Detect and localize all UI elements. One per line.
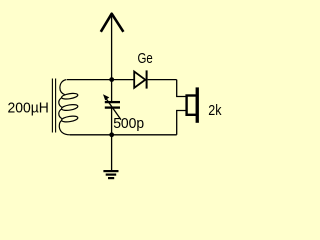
diode D1 Ge, triangle (134, 72, 145, 88)
node top junction (109, 77, 114, 82)
wire right drop lower (177, 111, 186, 135)
svg-text:200µH: 200µH (8, 99, 49, 116)
diode D1 cathode bar (146, 70, 148, 88)
wire right drop upper (177, 80, 186, 97)
inductor L1 core lines (51, 79, 53, 133)
node bottom junction (109, 132, 114, 137)
earphone LS1 diaphragm bar (196, 87, 199, 122)
wire bottom rail (70, 134, 177, 136)
wire capacitor to bottom junction (111, 107, 113, 135)
ground (103, 171, 118, 178)
capacitor C1 variable arrow (106, 99, 121, 120)
inductor L1 coil (59, 80, 78, 135)
wire diode to right corner (148, 79, 177, 81)
svg-text:500p: 500p (113, 115, 144, 132)
wire junction to ground (111, 135, 113, 170)
wire top rail junction to diode (112, 79, 135, 81)
antenna AE1 (101, 14, 124, 32)
svg-text:2k: 2k (208, 102, 222, 119)
svg-text:Ge: Ge (138, 50, 153, 67)
wire antenna to top junction (111, 14, 113, 80)
wire junction to capacitor (111, 80, 113, 102)
earphone LS1 body (187, 96, 197, 115)
capacitor C1 variable, plates (105, 101, 120, 103)
wire top rail left (junction to coil) (67, 79, 112, 81)
